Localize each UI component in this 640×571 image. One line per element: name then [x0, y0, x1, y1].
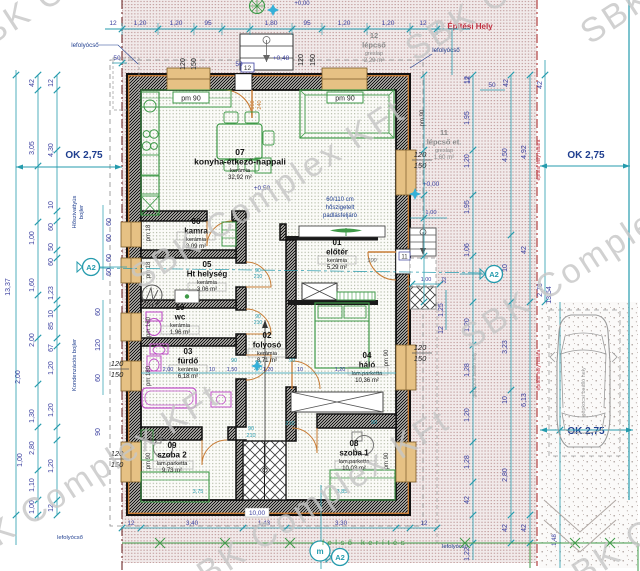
svg-text:konyha-étkező-nappali: konyha-étkező-nappali: [194, 157, 286, 167]
svg-text:120: 120: [414, 343, 427, 352]
svg-text:50: 50: [488, 82, 496, 89]
svg-text:1,20: 1,20: [464, 408, 471, 422]
svg-text:90: 90: [231, 358, 237, 364]
svg-text:1,20: 1,20: [263, 367, 274, 373]
svg-text:1,20: 1,20: [48, 403, 55, 417]
svg-text:60: 60: [48, 258, 55, 266]
svg-text:3,06 m²: 3,06 m²: [197, 287, 217, 293]
svg-text:3,40: 3,40: [186, 520, 199, 527]
svg-text:120: 120: [414, 150, 427, 159]
svg-text:1,25: 1,25: [438, 303, 445, 317]
svg-text:építési hely határa: építési hely határa: [536, 349, 542, 390]
svg-text:10: 10: [502, 396, 509, 404]
svg-text:pm 180: pm 180: [146, 316, 152, 337]
svg-text:120: 120: [111, 359, 124, 368]
svg-text:05: 05: [203, 260, 212, 269]
svg-text:bojler: bojler: [79, 205, 85, 219]
svg-text:42: 42: [521, 246, 528, 254]
svg-text:1,28: 1,28: [464, 363, 471, 377]
svg-text:60: 60: [106, 234, 113, 242]
svg-text:32,92 m²: 32,92 m²: [228, 175, 252, 181]
svg-text:12: 12: [48, 79, 55, 87]
svg-text:50: 50: [48, 243, 55, 251]
svg-text:építési hely határa: építési hely határa: [536, 139, 542, 180]
svg-text:60: 60: [95, 374, 102, 382]
svg-text:2,00: 2,00: [163, 367, 174, 373]
svg-text:+0,48: +0,48: [273, 55, 290, 62]
svg-text:kerámia: kerámia: [327, 258, 348, 264]
svg-text:1,28: 1,28: [464, 455, 471, 469]
svg-text:160: 160: [250, 100, 256, 109]
svg-text:240: 240: [257, 100, 263, 109]
svg-text:1,06: 1,06: [464, 243, 471, 257]
svg-text:A2: A2: [335, 553, 345, 562]
svg-text:pm 90: pm 90: [181, 96, 201, 103]
svg-text:1,20: 1,20: [48, 459, 55, 473]
svg-text:Ht helység: Ht helység: [187, 270, 228, 279]
svg-text:12: 12: [421, 520, 428, 527]
svg-text:120: 120: [180, 58, 187, 70]
svg-text:pm 18: pm 18: [146, 224, 152, 241]
svg-text:12: 12: [370, 31, 378, 40]
svg-text:1,20: 1,20: [382, 20, 395, 27]
svg-text:10: 10: [48, 310, 55, 318]
svg-text:Hőszivattyús: Hőszivattyús: [72, 195, 78, 228]
svg-text:2,00: 2,00: [29, 333, 36, 347]
svg-text:03: 03: [184, 347, 193, 356]
svg-text:1,20: 1,20: [48, 361, 55, 375]
svg-text:háló: háló: [359, 361, 376, 370]
svg-text:1,95: 1,95: [464, 111, 471, 125]
svg-text:1,95: 1,95: [464, 200, 471, 214]
svg-text:m: m: [316, 547, 323, 556]
svg-text:+0,00: +0,00: [294, 1, 310, 7]
svg-text:12: 12: [438, 326, 445, 334]
svg-text:10: 10: [502, 264, 509, 272]
svg-text:11: 11: [401, 255, 408, 261]
svg-text:1,20: 1,20: [335, 367, 346, 373]
svg-text:kerámia: kerámia: [178, 367, 199, 373]
svg-text:60: 60: [95, 308, 102, 316]
svg-text:42: 42: [503, 79, 510, 87]
svg-text:10,36 m²: 10,36 m²: [355, 378, 379, 384]
svg-text:lam.parketta: lam.parketta: [157, 461, 189, 467]
svg-text:1,22: 1,22: [464, 547, 471, 561]
svg-text:1,48: 1,48: [552, 534, 558, 546]
svg-text:3,30: 3,30: [335, 520, 348, 527]
svg-text:lam.parketta: lam.parketta: [352, 371, 384, 377]
svg-text:50: 50: [113, 55, 121, 62]
svg-text:pm 90: pm 90: [335, 96, 355, 103]
svg-text:1,60: 1,60: [29, 278, 36, 292]
svg-text:13,37: 13,37: [5, 278, 12, 296]
svg-text:1,00: 1,00: [421, 277, 432, 283]
svg-text:kerámia: kerámia: [257, 351, 278, 357]
svg-text:210: 210: [254, 274, 263, 280]
svg-text:90: 90: [248, 426, 254, 432]
svg-text:210: 210: [246, 433, 255, 439]
svg-text:10: 10: [176, 303, 185, 312]
svg-text:150: 150: [414, 354, 427, 363]
svg-text:95: 95: [303, 20, 311, 27]
svg-text:lefolyócső: lefolyócső: [71, 42, 99, 49]
svg-text:150: 150: [310, 54, 317, 66]
svg-text:4,50: 4,50: [502, 148, 509, 162]
svg-text:02: 02: [263, 331, 272, 340]
svg-text:pm 90: pm 90: [420, 109, 426, 126]
svg-text:42: 42: [521, 524, 528, 532]
svg-text:22: 22: [442, 277, 448, 283]
svg-text:120: 120: [95, 339, 102, 351]
svg-text:6,18 m²: 6,18 m²: [178, 374, 198, 380]
svg-text:Kondenzációs bojler: Kondenzációs bojler: [72, 339, 78, 391]
svg-text:4,92: 4,92: [521, 145, 528, 159]
svg-text:42: 42: [29, 79, 36, 87]
svg-text:1,23: 1,23: [48, 286, 55, 300]
svg-text:42: 42: [502, 524, 509, 532]
svg-text:1,00: 1,00: [17, 453, 24, 467]
svg-text:2,80: 2,80: [502, 468, 509, 482]
svg-text:60/110 cm: 60/110 cm: [326, 197, 354, 203]
svg-text:120: 120: [298, 54, 305, 66]
svg-text:4,30: 4,30: [48, 143, 55, 157]
svg-text:hőszigetelt: hőszigetelt: [326, 205, 355, 211]
svg-text:2,80: 2,80: [29, 441, 36, 455]
svg-text:lépcső et.: lépcső et.: [427, 138, 462, 147]
svg-text:6,13: 6,13: [521, 393, 528, 407]
svg-text:wc: wc: [174, 313, 186, 322]
svg-text:60: 60: [106, 268, 113, 276]
svg-text:150: 150: [191, 58, 198, 70]
svg-text:folyosó: folyosó: [253, 341, 282, 350]
svg-text:2,00: 2,00: [15, 370, 22, 384]
svg-text:padlásfeljáró: padlásfeljáró: [323, 213, 358, 219]
svg-text:3,75: 3,75: [193, 489, 204, 495]
svg-text:1,96 m²: 1,96 m²: [170, 330, 190, 336]
svg-text:greslap: greslap: [435, 148, 453, 154]
svg-text:08: 08: [350, 439, 359, 448]
svg-text:1,20: 1,20: [170, 20, 183, 27]
svg-text:10: 10: [297, 367, 303, 373]
svg-text:42: 42: [537, 81, 544, 89]
svg-text:szoba 2: szoba 2: [157, 451, 187, 460]
svg-text:12: 12: [109, 20, 117, 27]
svg-text:60: 60: [48, 223, 55, 231]
svg-text:42: 42: [464, 496, 471, 504]
svg-text:kerámia: kerámia: [230, 168, 251, 174]
svg-text:1,80: 1,80: [265, 20, 278, 27]
svg-text:150: 150: [414, 161, 427, 170]
svg-text:3,23: 3,23: [502, 340, 509, 354]
svg-text:95: 95: [204, 20, 212, 27]
svg-text:1,00: 1,00: [29, 231, 36, 245]
svg-text:90: 90: [95, 428, 102, 436]
svg-text:1,50: 1,50: [227, 367, 238, 373]
svg-text:greslap: greslap: [365, 51, 383, 57]
svg-text:3,05: 3,05: [29, 141, 36, 155]
svg-text:67: 67: [48, 344, 55, 352]
svg-text:10: 10: [48, 201, 55, 209]
svg-text:50: 50: [235, 61, 243, 68]
svg-text:lefolyócső: lefolyócső: [57, 535, 83, 541]
svg-text:A2: A2: [489, 270, 499, 279]
svg-text:210: 210: [254, 320, 263, 326]
svg-text:01: 01: [333, 238, 342, 247]
svg-text:1,20: 1,20: [464, 154, 471, 168]
svg-text:OK 2,75: OK 2,75: [567, 150, 605, 161]
svg-text:90: 90: [371, 420, 377, 426]
svg-text:1,20: 1,20: [134, 20, 147, 27]
svg-text:60: 60: [106, 254, 113, 262]
svg-text:11: 11: [440, 128, 448, 137]
svg-text:2,29 m²: 2,29 m²: [364, 58, 384, 64]
svg-text:07: 07: [235, 147, 245, 157]
svg-text:150: 150: [111, 370, 124, 379]
svg-text:A2: A2: [86, 263, 96, 272]
svg-text:5,29 m²: 5,29 m²: [327, 265, 347, 271]
svg-text:előtér: előtér: [326, 248, 348, 257]
svg-text:10: 10: [209, 367, 215, 373]
svg-text:lépcső: lépcső: [362, 41, 386, 50]
svg-text:90: 90: [289, 358, 295, 364]
svg-text:fürdő: fürdő: [178, 357, 199, 366]
svg-text:12: 12: [244, 65, 252, 72]
svg-text:04: 04: [363, 351, 372, 360]
svg-text:felső kerítés: felső kerítés: [322, 538, 408, 547]
svg-text:60: 60: [106, 218, 113, 226]
svg-text:85: 85: [48, 322, 55, 330]
svg-text:gépkocsi beálló hely: gépkocsi beálló hely: [581, 367, 587, 417]
svg-text:pm 180: pm 180: [146, 365, 152, 386]
svg-text:1,20: 1,20: [338, 20, 351, 27]
svg-text:210: 210: [285, 421, 294, 427]
svg-text:OK 2,75: OK 2,75: [567, 426, 605, 437]
svg-text:1,30: 1,30: [29, 409, 36, 423]
svg-text:OK 2,75: OK 2,75: [65, 150, 103, 161]
svg-text:+0,00: +0,00: [423, 181, 440, 188]
svg-text:1,60 m²: 1,60 m²: [434, 155, 454, 161]
svg-text:12: 12: [128, 520, 135, 527]
svg-text:pm 90: pm 90: [384, 349, 390, 366]
svg-text:100: 100: [367, 258, 377, 264]
svg-text:12: 12: [465, 76, 472, 84]
